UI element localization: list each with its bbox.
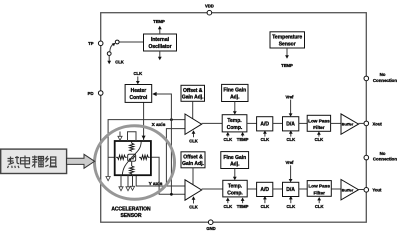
svg-text:CLK: CLK (189, 205, 198, 210)
open arrowhead left stub (106, 177, 110, 181)
oscillator TEMP arrow up (159, 28, 161, 34)
svg-text:TEMP: TEMP (153, 19, 165, 24)
wire offset to amp Y (192, 168, 194, 186)
wire LPF to buffer X (331, 122, 341, 124)
svg-text:Yout: Yout (372, 188, 382, 193)
svg-text:Filter: Filter (313, 190, 325, 195)
wire offset to amp X (192, 101, 194, 119)
svg-text:Temperature: Temperature (272, 35, 302, 41)
wire A/D to D/A X (273, 122, 283, 124)
svg-text:Vref: Vref (286, 94, 295, 99)
svg-text:ACCELERATION: ACCELERATION (111, 206, 151, 212)
svg-text:Low Pass: Low Pass (308, 184, 330, 189)
wire: Y upper line (136, 175, 185, 186)
wire: X left stub tee into sensor (108, 156, 115, 158)
svg-text:Temp.: Temp. (227, 118, 242, 124)
svg-text:PD: PD (88, 91, 94, 96)
low pass filter Y (307, 181, 331, 197)
svg-text:No: No (380, 151, 386, 156)
offset gain adj Y (181, 152, 205, 168)
svg-text:TEMP: TEMP (281, 63, 293, 68)
svg-text:TEMP: TEMP (237, 204, 249, 209)
svg-text:TP: TP (88, 41, 94, 46)
sensor S-curve wire (122, 142, 141, 176)
pin Xout (364, 121, 369, 126)
resistor R right (139, 155, 150, 159)
svg-text:Connection: Connection (373, 78, 397, 83)
svg-text:CLK: CLK (315, 137, 324, 142)
glyph 热 (8, 156, 20, 168)
svg-text:Adj.: Adj. (230, 94, 240, 100)
wire: Y lower line from sensor right lead (151, 157, 185, 194)
svg-text:CLK: CLK (286, 137, 295, 142)
resistor R top (130, 141, 134, 151)
wire D/A to LPF X (299, 122, 307, 124)
pin Yout (364, 188, 369, 193)
heater control U3 (125, 85, 152, 103)
switch wiper arc (110, 44, 114, 52)
magnifier circle around sensor (95, 126, 175, 200)
svg-text:Buffer: Buffer (342, 187, 354, 192)
block arrow (67, 154, 95, 168)
svg-text:Heater: Heater (131, 88, 147, 94)
outer boundary box (101, 13, 367, 223)
svg-text:Buffer: Buffer (342, 122, 354, 127)
D/A Y (283, 182, 299, 196)
sensor top stub with open arrow (119, 132, 121, 137)
wire temp comp to A/D Y (247, 188, 256, 190)
pin TP (98, 41, 103, 46)
svg-text:CLK: CLK (223, 137, 232, 142)
svg-text:Oscillator: Oscillator (148, 44, 171, 50)
svg-text:Fine Gain: Fine Gain (223, 155, 246, 161)
svg-text:CLK: CLK (261, 137, 270, 142)
wire: X amp lower input (166, 129, 185, 186)
fine gain adj X (222, 84, 248, 101)
svg-text:Control: Control (130, 95, 148, 101)
svg-text:Low Pass: Low Pass (308, 118, 330, 123)
svg-text:SENSOR: SENSOR (120, 213, 142, 219)
sensor bottom stub 2 (127, 175, 129, 187)
temperature sensor U2 (270, 32, 305, 48)
svg-text:Adj.: Adj. (230, 162, 240, 168)
svg-text:GND: GND (206, 226, 215, 231)
sensor bottom stub 3 (132, 175, 134, 186)
svg-text:A/D: A/D (260, 121, 269, 127)
wire fine gain to temp comp Y (234, 169, 236, 179)
svg-text:CLK: CLK (223, 204, 232, 209)
pin No Connection lower (364, 155, 369, 160)
glyph 耦 (32, 156, 44, 168)
svg-text:A/D: A/D (260, 187, 269, 193)
sensor square (115, 141, 151, 175)
wire fine gain to temp comp X (234, 102, 236, 113)
svg-text:Y axis: Y axis (149, 181, 163, 187)
svg-text:Sensor: Sensor (279, 41, 296, 47)
oscillator U1 (144, 34, 177, 51)
svg-text:Gain Adj.: Gain Adj. (182, 95, 204, 101)
svg-text:Connection: Connection (373, 156, 397, 161)
temp sensor arrow down to TEMP (286, 48, 288, 57)
wire D/A to LPF Y (299, 188, 307, 190)
svg-text:Fine Gain: Fine Gain (223, 88, 246, 94)
svg-text:Temp.: Temp. (228, 184, 243, 190)
D/A X (283, 117, 299, 131)
switch CLK stub (108, 56, 110, 63)
svg-text:X axis: X axis (152, 122, 166, 128)
svg-text:Offset &: Offset & (183, 155, 203, 161)
buffer Y (341, 180, 359, 200)
svg-text:Filter: Filter (313, 125, 325, 130)
buffer X (341, 114, 359, 134)
node X junction (170, 118, 173, 121)
glyph 组 (45, 156, 57, 167)
svg-text:D/A: D/A (286, 187, 295, 193)
pin No Connection upper (364, 76, 369, 81)
glyph 电 (21, 156, 31, 168)
pin PD (98, 91, 103, 96)
svg-text:Offset &: Offset & (183, 88, 203, 94)
wire LPF to buffer Y (331, 188, 341, 190)
resistor R left (116, 155, 127, 159)
thermocouple label box (1, 149, 67, 173)
svg-text:Gain Adj.: Gain Adj. (182, 161, 204, 167)
switch lower contact (107, 52, 111, 56)
pin GND (208, 220, 213, 225)
svg-text:CLK: CLK (261, 204, 270, 209)
temp comp Y (223, 180, 247, 197)
offset gain adj X (181, 85, 205, 101)
sensor bottom stub 1 (120, 175, 122, 187)
svg-text:CLK: CLK (286, 204, 295, 209)
wire: X axis line (108, 120, 185, 177)
svg-text:No: No (380, 72, 386, 77)
amp X (185, 114, 202, 134)
wire buffer X to pin (359, 122, 365, 124)
wire temp comp to A/D X (247, 122, 257, 124)
oscillator CLK arrow down (159, 51, 161, 58)
wire: bus from heater to Y lower (155, 94, 172, 194)
switch upper contact (115, 40, 119, 44)
svg-text:Comp.: Comp. (227, 190, 243, 196)
svg-text:CLK: CLK (133, 71, 142, 76)
fine gain adj Y (221, 152, 249, 169)
arrowhead into heater control right (152, 92, 156, 96)
temp comp X (222, 115, 247, 132)
svg-text:Comp.: Comp. (227, 125, 243, 131)
low pass filter X (307, 115, 330, 131)
wire amp Y to temp comp (202, 188, 223, 190)
svg-text:CLK: CLK (189, 138, 198, 143)
svg-text:D/A: D/A (286, 121, 295, 127)
svg-text:CLK: CLK (115, 59, 124, 64)
wire amp X to temp comp (202, 122, 223, 124)
svg-text:CLK: CLK (315, 204, 324, 209)
amp Y (185, 180, 202, 200)
A/D Y (257, 182, 273, 196)
sensor top loop wire (128, 132, 137, 141)
switch S1: wire to oscillator (119, 41, 144, 43)
svg-text:Vref: Vref (286, 160, 295, 165)
svg-text:TEMP: TEMP (237, 137, 249, 142)
pin VDD (207, 10, 212, 15)
wire buffer Y to pin (359, 189, 365, 191)
A/D X (257, 117, 273, 131)
svg-text:Xout: Xout (373, 121, 383, 126)
resistor R center in rounded box (128, 154, 136, 161)
node Y junction (170, 193, 173, 196)
svg-text:VDD: VDD (205, 4, 214, 9)
wire A/D to D/A Y (273, 188, 283, 190)
resistor R bottom (130, 162, 134, 175)
svg-text:Internal: Internal (151, 37, 170, 43)
heater drive wire into sensor (143, 102, 145, 141)
